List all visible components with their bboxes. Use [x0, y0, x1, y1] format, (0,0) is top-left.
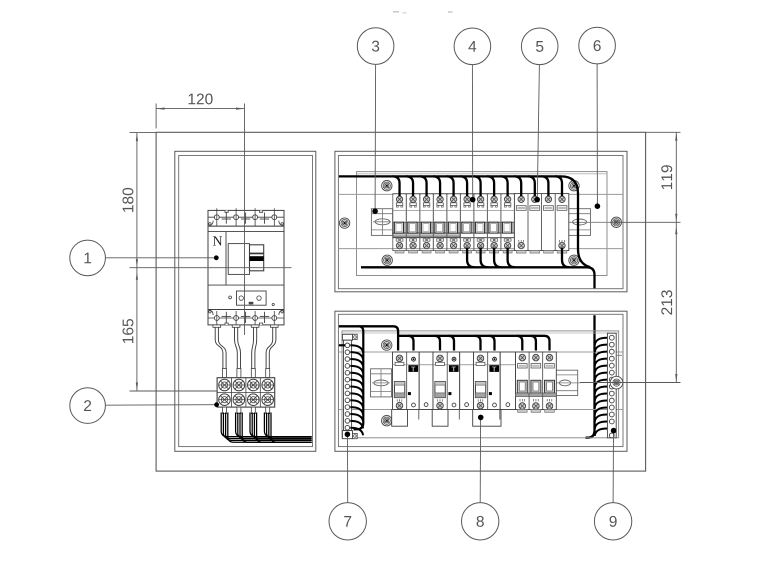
upper DIN rail left end	[371, 209, 392, 236]
callout balloon 6	[579, 27, 616, 64]
MCB breaker 6	[460, 194, 474, 253]
lower DIN rail	[392, 370, 556, 395]
dimension 165 vertical	[122, 268, 217, 391]
callout 9 leader	[611, 428, 617, 503]
callout 2 leader	[105, 402, 219, 407]
main breaker N pole label	[213, 236, 222, 245]
upper plate screw top-left	[382, 181, 392, 191]
RCBO unit 3 lower extension	[473, 410, 501, 427]
callout balloon 9	[594, 503, 631, 540]
MCB breaker 4	[433, 194, 447, 253]
lower DIN rail right end	[553, 370, 580, 395]
spacer module 1	[419, 352, 433, 410]
callout balloon 5	[521, 28, 558, 65]
callout balloon 7	[329, 503, 366, 540]
main breaker accessory panel	[229, 291, 275, 306]
main breaker bottom terminal strip	[208, 310, 284, 328]
callout 1 leader	[105, 255, 218, 260]
MCB breaker 2	[406, 194, 420, 253]
jumper wire to first terminal	[339, 344, 345, 346]
upper panel frame	[335, 151, 627, 291]
callout balloon 8	[462, 503, 499, 540]
upper panel frame screw left	[339, 218, 349, 228]
outgoing cable bundles from terminal block	[221, 407, 311, 442]
callout 8 leader	[478, 415, 484, 503]
MCB row label band left (gray)	[393, 233, 461, 238]
dimension 213 vertical	[580, 222, 681, 382]
left strip wire comb	[350, 326, 363, 435]
lower plate screw bottom-left	[382, 416, 392, 426]
RCBO unit 3	[474, 352, 501, 410]
3-pole breaker group	[516, 352, 557, 412]
dimension 180 vertical	[122, 133, 291, 268]
callout 3 leader	[372, 64, 378, 214]
upper panel cutout opening lines	[338, 194, 623, 248]
spacer module 2	[460, 352, 474, 410]
RCBO unit 2	[433, 352, 460, 410]
callout 6 leader	[595, 64, 601, 209]
RCBO unit 1 lower extension	[392, 410, 408, 427]
MCB breaker 7	[474, 194, 488, 253]
upper plate screw top-right	[569, 181, 579, 191]
callout 7 leader	[345, 432, 351, 503]
upper panel breaker outgoing wires	[467, 248, 569, 268]
wires from main breaker to terminal block	[215, 327, 276, 377]
upper DIN rail right end	[566, 209, 610, 236]
MCB breaker 3	[420, 194, 434, 253]
main breaker Q1 body	[208, 226, 284, 309]
callout 5 leader	[534, 65, 540, 203]
lower plate screw top-left	[382, 340, 392, 350]
callout balloon 3	[357, 28, 394, 65]
MCB breaker 8	[487, 194, 501, 253]
upper plate screw bottom-right	[569, 255, 579, 265]
stray plot marks	[393, 11, 453, 13]
spacer module 3	[500, 352, 515, 410]
lower panel left terminal strip	[342, 334, 357, 438]
MCB breaker 1	[393, 194, 407, 253]
upper panel frame screw right	[611, 217, 621, 227]
lower panel mounting plate	[342, 331, 619, 438]
lower panel branch wires to breakers	[408, 336, 536, 351]
lower panel feed bus wire	[339, 326, 398, 350]
terminal block TB1	[217, 378, 275, 407]
RCBO unit 2 lower extension	[432, 410, 448, 427]
lower panel cutout opening lines	[338, 352, 623, 410]
4-pole isolator switch	[514, 194, 568, 254]
upper panel branch wires to breakers	[393, 176, 562, 196]
left compartment frame	[175, 151, 316, 451]
lower panel frame	[335, 311, 627, 451]
lower panel branch bus	[398, 336, 549, 351]
callout balloon 2	[70, 388, 106, 424]
upper panel outgoing bottom bus wire	[361, 267, 595, 288]
upper panel mounting plate	[357, 172, 608, 276]
MCB row toggle gray backing	[393, 222, 515, 233]
upper plate screw bottom-left	[382, 255, 392, 265]
lower panel incoming bus wire	[586, 315, 595, 437]
right strip screw	[610, 376, 623, 389]
RCBO unit 1	[393, 352, 420, 410]
main breaker handle	[228, 244, 264, 275]
MCB row label band right (white)	[460, 233, 514, 238]
callout 4 leader	[470, 65, 476, 203]
dimension 119 vertical	[610, 132, 681, 222]
callout balloon 1	[70, 240, 106, 276]
lower panel right terminal strip	[607, 333, 622, 438]
main breaker top terminal strip	[208, 208, 284, 231]
lower DIN rail left end	[371, 369, 392, 397]
right strip wire comb	[595, 338, 607, 436]
upper panel feed bus wire	[339, 176, 590, 267]
cabinet enclosure outline	[156, 132, 645, 471]
dimension 120 horizontal	[156, 93, 244, 335]
MCB breaker 9	[501, 194, 515, 253]
MCB breaker 5	[447, 194, 461, 253]
callout balloon 4	[454, 28, 491, 65]
